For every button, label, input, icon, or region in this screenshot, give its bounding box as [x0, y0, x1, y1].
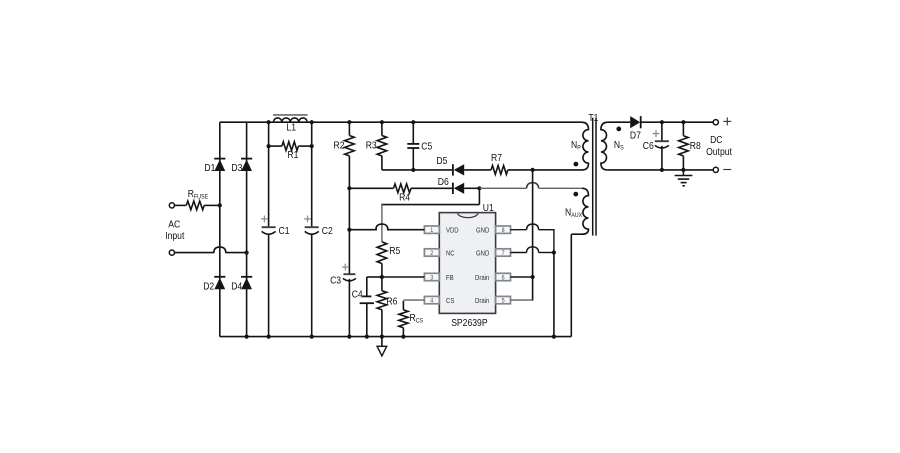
junction R8 top: [681, 120, 685, 124]
svg-text:C2: C2: [322, 225, 333, 237]
svg-text:D4: D4: [231, 281, 242, 293]
junction VDD tap on C3 column: [347, 228, 351, 232]
svg-text:5: 5: [502, 297, 505, 304]
svg-text:6: 6: [502, 274, 505, 281]
diode D3: [231, 159, 252, 175]
junction R6 bottom: [380, 335, 384, 339]
svg-text:R6: R6: [386, 296, 397, 308]
wire top rail middle section (L1 to transformer): [312, 121, 582, 123]
junction top rail R2: [347, 120, 351, 124]
svg-text:7: 7: [502, 250, 505, 257]
diode D7: [630, 116, 641, 142]
label DC Output: [706, 134, 732, 158]
wire pin4 CS to Rcs: [403, 300, 424, 310]
svg-text:R1: R1: [287, 149, 298, 161]
svg-text:Output: Output: [706, 146, 732, 158]
wire bottom ground rail: [220, 336, 572, 338]
junction L1 right: [310, 120, 314, 124]
svg-text:D2: D2: [203, 281, 214, 293]
inductor L1: [269, 115, 312, 134]
diode D2: [203, 277, 225, 293]
junction RFUSE to bridge: [218, 203, 222, 207]
junction C3 bottom: [347, 335, 351, 339]
junction drain node at R7/Np: [531, 168, 535, 172]
resistor RCS: [399, 310, 424, 337]
svg-text:1: 1: [430, 227, 433, 234]
svg-text:GND: GND: [476, 226, 489, 235]
wire pin8 GND right with hop, to gnd vertical: [511, 224, 554, 253]
junction R2 to R4: [347, 186, 351, 190]
junction D6 output node: [477, 186, 481, 190]
svg-text:L1: L1: [286, 122, 296, 134]
svg-text:C3: C3: [330, 275, 341, 287]
junction gnd vertical at bottom rail: [552, 335, 556, 339]
wire R3/C5 bottom to D5: [382, 169, 452, 171]
capacitor C4: [352, 277, 382, 337]
wire D7 to output plus: [641, 121, 713, 123]
junction AC bottom to D3/D4 leg: [245, 251, 249, 255]
junction R1 right: [310, 144, 314, 148]
resistor R6: [377, 277, 397, 337]
junction C6 bottom: [660, 168, 664, 172]
svg-text:D3: D3: [231, 162, 242, 174]
svg-text:2: 2: [430, 250, 433, 257]
capacitor C3: [330, 264, 356, 337]
diode D1: [204, 159, 225, 175]
wire pin1 VDD to C3 column with hop over R5 wire: [349, 224, 424, 230]
junction pin7 on gnd vertical: [552, 250, 556, 254]
svg-text:SP2639P: SP2639P: [451, 317, 487, 329]
junction R1 left: [267, 144, 271, 148]
transformer secondary winding Ns: [601, 122, 624, 170]
polarity dot Ns: [616, 126, 621, 131]
svg-text:3: 3: [430, 274, 433, 281]
wire R7 junction to Np bottom: [533, 169, 582, 171]
junction top rail R3: [380, 120, 384, 124]
polarity dot Naux: [573, 192, 578, 197]
svg-text:R3: R3: [366, 140, 377, 152]
wire top rail left section (bridge to L1): [220, 121, 269, 123]
wire link D6 node down-left to R5 top: [381, 188, 479, 242]
polarity dot Np: [574, 162, 579, 167]
resistor R3: [366, 122, 387, 170]
wire Naux bottom return: [571, 234, 582, 336]
svg-text:U1: U1: [483, 202, 494, 214]
wire drain vertical: [532, 170, 534, 300]
AC input terminal top: [169, 203, 174, 208]
wire D6 to junction: [464, 187, 479, 189]
resistor R8: [679, 122, 701, 170]
svg-text:FB: FB: [446, 273, 454, 282]
wire Ns top to D7: [608, 121, 630, 123]
wire D5 to R7: [464, 169, 491, 171]
wire C2 column: [311, 122, 313, 336]
svg-text:R8: R8: [690, 140, 701, 152]
junction C1 at bottom rail: [267, 335, 271, 339]
diode D5: [436, 155, 464, 176]
junction R8/earth bottom: [681, 168, 685, 172]
wire left bridge leg D1/D2 column: [219, 122, 221, 336]
capacitor C6: [643, 122, 669, 170]
wire Ns bottom to output minus: [607, 169, 713, 171]
resistor R5: [377, 242, 400, 277]
capacitor C1: [261, 216, 290, 237]
wire pin7 GND right with hop: [511, 247, 554, 253]
svg-text:D5: D5: [436, 155, 447, 167]
wire pin6 Drain to drain vertical: [511, 276, 533, 278]
junction R5/R6/C4/FB node: [380, 275, 384, 279]
op-amp U1 SP2639P body: [439, 202, 495, 329]
junction L1 left: [267, 120, 271, 124]
capacitor C5: [407, 122, 432, 170]
svg-text:D7: D7: [630, 130, 641, 142]
svg-text:R2: R2: [334, 140, 345, 152]
wire right bridge leg D3/D4 column: [246, 122, 248, 336]
wire D6 junction to Naux top with hop over drain line: [479, 183, 582, 189]
svg-text:D6: D6: [438, 176, 449, 188]
svg-text:Drain: Drain: [475, 296, 489, 305]
wire AC bottom with hop over D1/D2 leg: [175, 247, 247, 253]
capacitor C2: [304, 216, 333, 237]
junction pin6 on drain vertical: [531, 275, 535, 279]
svg-text:R7: R7: [491, 152, 502, 164]
svg-text:C6: C6: [643, 140, 654, 152]
output terminal minus: [713, 167, 718, 172]
svg-text:AC: AC: [168, 219, 180, 231]
wire R2/C3 column VDD segment: [348, 188, 350, 274]
junction C2 at bottom rail: [310, 335, 314, 339]
junction top rail C5: [411, 120, 415, 124]
label minus sign: [723, 169, 731, 171]
svg-text:DC: DC: [710, 134, 723, 146]
svg-text:Drain: Drain: [475, 273, 489, 282]
svg-text:VDD: VDD: [446, 226, 459, 235]
svg-text:C1: C1: [279, 225, 290, 237]
svg-text:C4: C4: [352, 289, 363, 301]
svg-text:CS: CS: [446, 296, 454, 305]
diode D6: [438, 176, 464, 194]
svg-text:T1: T1: [588, 112, 598, 124]
wire pin3 FB to R5/R6 node: [382, 276, 425, 278]
svg-text:D1: D1: [204, 162, 215, 174]
svg-text:GND: GND: [476, 248, 489, 257]
svg-text:R5: R5: [389, 245, 400, 257]
svg-text:4: 4: [430, 297, 433, 304]
svg-text:R4: R4: [399, 192, 410, 204]
junction C4 bottom: [365, 335, 369, 339]
resistor R1: [269, 142, 312, 161]
resistor R7: [491, 152, 533, 174]
svg-text:8: 8: [502, 227, 505, 234]
diode D4: [231, 277, 252, 293]
transformer primary winding Np: [571, 122, 589, 170]
output terminal plus: [713, 120, 718, 125]
label plus sign: [723, 117, 731, 125]
svg-text:Input: Input: [165, 230, 184, 242]
wire C1 column: [268, 122, 270, 336]
junction C5 bottom: [411, 168, 415, 172]
resistor R4: [349, 184, 452, 204]
transformer core T1: [588, 112, 598, 236]
wire pin5 Drain to drain vertical: [511, 299, 534, 301]
ground (signal) below R6: [377, 337, 387, 356]
label AC Input: [165, 219, 184, 243]
junction C6 top: [660, 120, 664, 124]
svg-text:NC: NC: [446, 248, 455, 257]
junction D3/D4 leg at bottom rail: [245, 335, 249, 339]
resistor RFUSE: [175, 188, 220, 210]
junction Rcs bottom: [401, 335, 405, 339]
svg-text:C5: C5: [421, 140, 432, 152]
ground (earth) below output minus rail: [675, 170, 693, 186]
transformer auxiliary winding Naux: [565, 188, 589, 234]
wire gnd vertical down to bottom rail: [553, 253, 555, 337]
pin boxes and pin labels of U1: [424, 226, 510, 305]
resistor R2: [334, 122, 355, 188]
AC input terminal bottom: [169, 250, 174, 255]
